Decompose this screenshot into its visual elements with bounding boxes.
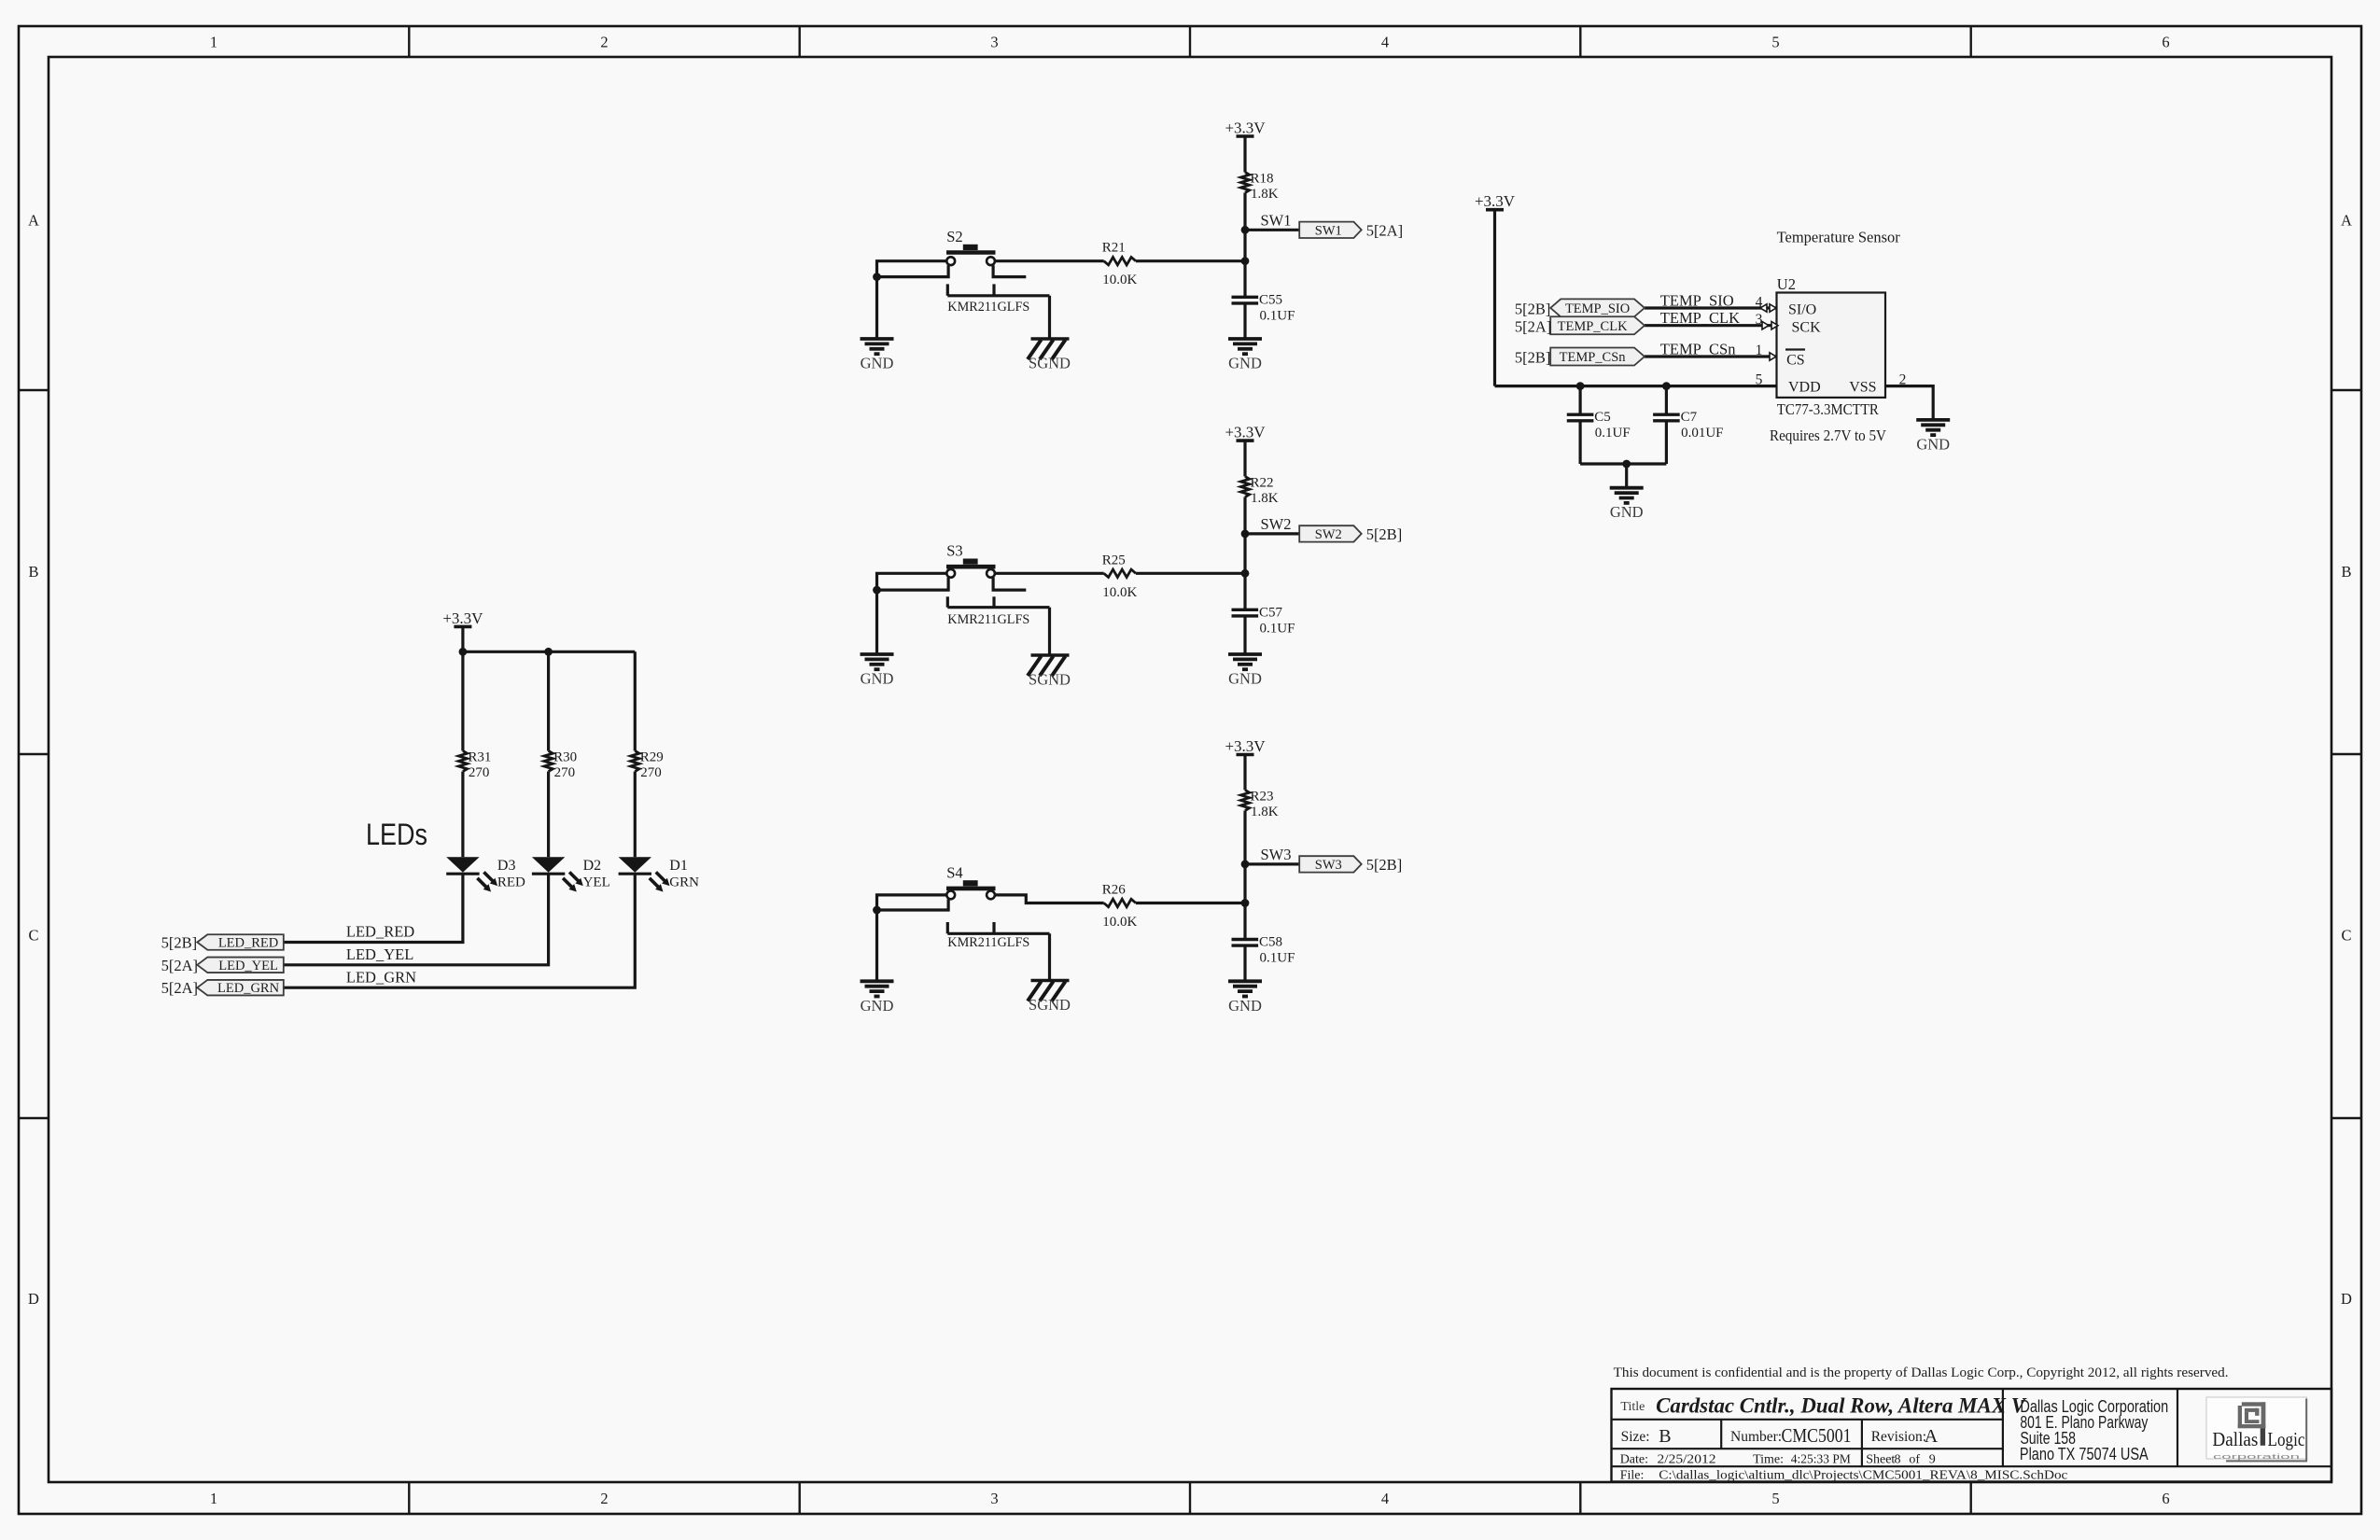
- wire cap bus to GND: [1625, 464, 1628, 488]
- svg-text:A: A: [2341, 212, 2352, 230]
- svg-text:S4: S4: [946, 863, 962, 881]
- svg-text:RED: RED: [497, 875, 525, 890]
- port SW3: [1299, 856, 1362, 873]
- port TEMP_SIO: [1550, 299, 1645, 316]
- svg-text:5[2A]: 5[2A]: [161, 957, 198, 974]
- wire switch S4 right contact step: [995, 895, 1104, 903]
- svg-text:R23: R23: [1251, 789, 1274, 804]
- wire lower contact S3: [877, 578, 949, 590]
- wire TEMP_CSn to U2 pin 1: [1645, 355, 1777, 357]
- svg-text:3: 3: [990, 1490, 998, 1507]
- power +3.3V temp sensor: [1475, 192, 1516, 210]
- IC U2 TC77-3.3MCTTR body: [1777, 293, 1886, 398]
- junction cap ground bus: [1622, 460, 1631, 469]
- wire C5 to gnd bus: [1578, 421, 1581, 464]
- svg-text:2: 2: [600, 1490, 608, 1507]
- wire C57 to GND: [1243, 616, 1246, 654]
- svg-text:of: of: [1909, 1452, 1920, 1466]
- svg-text:U2: U2: [1777, 275, 1796, 293]
- svg-text:5: 5: [1771, 1490, 1779, 1507]
- title block frame: [1612, 1389, 2332, 1482]
- wire VSS pin 2 to GND: [1885, 386, 1933, 420]
- svg-text:R18: R18: [1251, 172, 1274, 187]
- svg-text:YEL: YEL: [583, 875, 610, 890]
- wire node SW1 to capacitor C55: [1243, 230, 1246, 297]
- capacitor C5 0.1UF: [1567, 410, 1631, 441]
- svg-text:Dallas: Dallas: [2212, 1428, 2258, 1450]
- Dallas Logic logo: [2206, 1397, 2307, 1459]
- svg-text:4:25:33 PM: 4:25:33 PM: [1791, 1452, 1852, 1466]
- svg-text:VDD: VDD: [1788, 380, 1821, 396]
- svg-text:+3.3V: +3.3V: [1225, 119, 1266, 137]
- svg-text:3: 3: [990, 34, 998, 51]
- junction LED bus at R30: [544, 648, 553, 656]
- svg-text:Cardstac Cntlr., Dual Row, Alt: Cardstac Cntlr., Dual Row, Altera MAX V: [1656, 1394, 2027, 1419]
- signal ground SGND S4: [1028, 981, 1071, 1015]
- port SW1: [1299, 222, 1362, 239]
- power +3.3V LEDs: [442, 609, 483, 627]
- svg-text:R21: R21: [1102, 241, 1126, 256]
- svg-text:5[2B]: 5[2B]: [1515, 301, 1551, 318]
- svg-text:SGND: SGND: [1029, 996, 1071, 1014]
- svg-text:SW1: SW1: [1315, 224, 1342, 239]
- svg-text:5: 5: [1771, 34, 1779, 51]
- wire lower contact S2: [877, 265, 949, 276]
- junction LED bus at R31: [459, 648, 468, 656]
- wire lower contact S4: [877, 899, 949, 910]
- svg-text:B: B: [28, 563, 38, 581]
- svg-text:CS: CS: [1786, 353, 1805, 369]
- svg-text:S3: S3: [946, 542, 962, 560]
- svg-text:R31: R31: [468, 750, 491, 765]
- border row dividers: [19, 389, 49, 391]
- wire left gnd drop S4: [875, 910, 878, 981]
- junction left gnd S2: [873, 273, 881, 281]
- LED D2 YEL: [532, 857, 583, 891]
- resistor R30 270: [544, 750, 577, 781]
- junction node SW3: [1241, 861, 1250, 869]
- junction VDD at C5: [1576, 382, 1585, 390]
- svg-text:C55: C55: [1259, 292, 1282, 307]
- signal ground SGND S3: [1028, 655, 1071, 689]
- power +3.3V SW2: [1225, 424, 1266, 441]
- svg-text:S2: S2: [946, 228, 962, 245]
- svg-text:C: C: [2341, 927, 2351, 945]
- svg-text:TEMP_SIO: TEMP_SIO: [1565, 301, 1630, 316]
- wire node SW3 to capacitor C58: [1243, 864, 1246, 940]
- svg-text:Time:: Time:: [1753, 1452, 1784, 1466]
- svg-text:CMC5001: CMC5001: [1782, 1424, 1852, 1447]
- svg-text:5[2A]: 5[2A]: [1515, 317, 1551, 335]
- svg-text:5[2A]: 5[2A]: [161, 979, 198, 997]
- svg-text:4: 4: [1381, 34, 1389, 51]
- wire left gnd to S3 top contact: [877, 573, 947, 590]
- svg-text:Temperature Sensor: Temperature Sensor: [1777, 229, 1901, 246]
- resistor R25 10.0K: [1102, 553, 1138, 600]
- svg-text:0.01UF: 0.01UF: [1681, 426, 1723, 441]
- wire right contact stub S2: [993, 265, 1026, 276]
- svg-text:GND: GND: [1228, 997, 1262, 1015]
- svg-text:Sheet: Sheet: [1866, 1452, 1895, 1466]
- svg-text:0.1UF: 0.1UF: [1595, 426, 1631, 441]
- resistor R22 1.8K: [1240, 476, 1278, 507]
- svg-text:LED_GRN: LED_GRN: [217, 981, 280, 996]
- svg-text:D: D: [28, 1290, 39, 1308]
- svg-text:GRN: GRN: [669, 875, 699, 890]
- svg-text:270: 270: [554, 765, 576, 780]
- switch S2 body bracket: [946, 284, 949, 295]
- port LED_RED: [197, 934, 283, 950]
- svg-text:2: 2: [1899, 372, 1907, 388]
- resistor R29 270: [631, 750, 664, 781]
- ground GND left S2: [861, 339, 894, 372]
- svg-text:10.0K: 10.0K: [1102, 585, 1137, 600]
- svg-text:+3.3V: +3.3V: [1475, 192, 1516, 210]
- junction node SW1: [1241, 226, 1250, 234]
- svg-text:SI/O: SI/O: [1788, 302, 1816, 318]
- svg-text:6: 6: [2162, 1490, 2169, 1507]
- wire bus drop R30: [547, 651, 550, 750]
- junction switch wire at node: [1241, 899, 1250, 907]
- junction switch wire at node: [1241, 257, 1250, 265]
- port SW2: [1299, 525, 1362, 542]
- svg-text:TC77-3.3MCTTR: TC77-3.3MCTTR: [1777, 400, 1879, 418]
- svg-text:1: 1: [1756, 343, 1763, 358]
- svg-text:GND: GND: [1228, 670, 1262, 688]
- capacitor C7 0.01UF: [1653, 410, 1723, 441]
- resistor R18 1.8K: [1240, 172, 1278, 203]
- svg-text:Revision:: Revision:: [1871, 1429, 1926, 1445]
- svg-text:B: B: [2341, 563, 2351, 581]
- svg-text:C:\dallas_logic\altium_dlc\Pro: C:\dallas_logic\altium_dlc\Projects\CMC5…: [1659, 1468, 2067, 1482]
- wire R23 to node SW3: [1243, 811, 1246, 864]
- wire S3 body to SGND: [1048, 608, 1051, 655]
- svg-text:C57: C57: [1259, 605, 1283, 620]
- svg-text:R30: R30: [553, 750, 577, 765]
- wire D2 anode: [547, 772, 550, 858]
- wire +3.3V to LED bus: [461, 626, 464, 651]
- svg-text:5[2B]: 5[2B]: [1366, 856, 1403, 874]
- svg-text:5[2B]: 5[2B]: [1515, 349, 1551, 367]
- svg-text:1: 1: [210, 1490, 217, 1507]
- ground GND under C55: [1228, 339, 1262, 372]
- svg-text:R22: R22: [1251, 476, 1274, 491]
- svg-text:GND: GND: [861, 355, 894, 372]
- wire resistor R18 to node: [1136, 259, 1245, 262]
- ground GND left S4: [861, 981, 894, 1015]
- junction left gnd S4: [873, 906, 881, 915]
- capacitor C58 0.1UF: [1232, 935, 1295, 966]
- junction left gnd S3: [873, 586, 881, 595]
- switch S3 body bracket: [946, 596, 949, 607]
- wire bus drop R29: [634, 651, 637, 750]
- wire node to port SW3: [1245, 862, 1299, 865]
- svg-text:B: B: [1659, 1426, 1671, 1447]
- svg-text:KMR211GLFS: KMR211GLFS: [947, 300, 1029, 315]
- svg-text:5: 5: [1756, 372, 1763, 388]
- junction VDD at C7: [1662, 382, 1671, 390]
- wire node to port SW2: [1245, 532, 1299, 535]
- svg-text:10.0K: 10.0K: [1102, 915, 1137, 930]
- port LED_YEL: [197, 958, 283, 973]
- svg-text:SW1: SW1: [1261, 211, 1292, 229]
- resistor R26 10.0K: [1102, 883, 1138, 931]
- resistor R21 10.0K: [1102, 241, 1138, 288]
- svg-text:Size:: Size:: [1621, 1429, 1650, 1445]
- svg-text:GND: GND: [1610, 503, 1644, 521]
- wire right contact stub S3: [993, 578, 1026, 590]
- wire node to port SW1: [1245, 229, 1299, 231]
- svg-text:GND: GND: [1916, 435, 1950, 453]
- wire D1 anode: [634, 772, 637, 858]
- svg-text:corporation: corporation: [2213, 1452, 2300, 1461]
- svg-text:2/25/2012: 2/25/2012: [1658, 1452, 1716, 1466]
- svg-text:R25: R25: [1102, 553, 1126, 567]
- svg-text:270: 270: [469, 765, 490, 780]
- svg-text:TEMP_CLK: TEMP_CLK: [1558, 319, 1628, 334]
- svg-text:Title: Title: [1620, 1400, 1645, 1414]
- wire D3 cathode to LED_RED port: [284, 874, 463, 942]
- svg-text:8: 8: [1895, 1452, 1901, 1466]
- wire resistor R22 to node: [1136, 572, 1245, 575]
- wire +3.3V to R18: [1243, 136, 1246, 173]
- svg-text:SW3: SW3: [1261, 846, 1292, 863]
- svg-text:1.8K: 1.8K: [1251, 805, 1279, 819]
- LED D3 RED: [446, 857, 497, 891]
- junction node SW2: [1241, 530, 1250, 539]
- svg-text:TEMP_SIO: TEMP_SIO: [1660, 292, 1734, 310]
- ground GND left S3: [861, 654, 894, 688]
- svg-text:Requires 2.7V to 5V: Requires 2.7V to 5V: [1770, 427, 1886, 444]
- wire C58 to GND: [1243, 945, 1246, 981]
- wire S2 body to SGND: [1048, 296, 1051, 339]
- svg-text:GND: GND: [861, 670, 894, 688]
- cap ground bus wire: [1580, 462, 1666, 465]
- LED D1 GRN: [619, 857, 670, 891]
- wire VDD rail: [1495, 385, 1777, 387]
- svg-text:0.1UF: 0.1UF: [1260, 621, 1295, 636]
- svg-text:C: C: [28, 927, 38, 945]
- svg-text:1.8K: 1.8K: [1251, 491, 1279, 506]
- svg-text:SW2: SW2: [1261, 515, 1292, 533]
- svg-text:A: A: [28, 212, 39, 230]
- svg-text:C7: C7: [1681, 410, 1698, 425]
- wire +3.3V to R23: [1243, 755, 1246, 791]
- svg-text:File:: File:: [1620, 1468, 1645, 1482]
- svg-text:SGND: SGND: [1029, 671, 1071, 689]
- svg-text:D1: D1: [669, 858, 688, 874]
- signal ground SGND S2: [1028, 339, 1071, 372]
- svg-text:VSS: VSS: [1849, 380, 1876, 396]
- pin 3 arrows: [1762, 322, 1778, 329]
- svg-text:Number:: Number:: [1730, 1429, 1782, 1445]
- svg-text:R26: R26: [1102, 883, 1127, 898]
- svg-text:D: D: [2341, 1290, 2352, 1308]
- resistor R23 1.8K: [1240, 789, 1278, 819]
- LED supply bus wire: [463, 651, 635, 653]
- capacitor C57 0.1UF: [1232, 605, 1295, 636]
- port LED_GRN: [197, 980, 283, 996]
- svg-text:TEMP_CSn: TEMP_CSn: [1660, 340, 1736, 357]
- port TEMP_CSn: [1550, 348, 1645, 366]
- svg-text:LED_RED: LED_RED: [346, 923, 414, 941]
- ground GND under caps: [1610, 488, 1644, 522]
- svg-text:SW2: SW2: [1315, 527, 1342, 542]
- svg-text:+3.3V: +3.3V: [1225, 737, 1266, 755]
- wire left gnd drop S2: [875, 277, 878, 339]
- wire node SW2 to capacitor C57: [1243, 534, 1246, 609]
- wire C55 to GND: [1243, 303, 1246, 339]
- wire +3.3V down to VDD rail: [1493, 210, 1496, 386]
- svg-text:LEDs: LEDs: [366, 818, 427, 851]
- svg-text:SCK: SCK: [1792, 320, 1822, 336]
- power +3.3V SW1: [1225, 119, 1266, 137]
- svg-text:10.0K: 10.0K: [1102, 273, 1137, 287]
- svg-text:+3.3V: +3.3V: [442, 609, 483, 627]
- wire left gnd drop S3: [875, 590, 878, 654]
- svg-text:LED_RED: LED_RED: [218, 936, 278, 951]
- wire D3 anode: [461, 772, 464, 858]
- wire TEMP_SIO to U2 pin 4: [1645, 306, 1777, 309]
- svg-text:D3: D3: [497, 858, 516, 874]
- svg-text:Plano TX 75074 USA: Plano TX 75074 USA: [2020, 1445, 2149, 1463]
- wire R18 to node SW1: [1243, 193, 1246, 231]
- ground GND under C57: [1228, 654, 1262, 688]
- svg-text:1: 1: [210, 34, 217, 51]
- svg-text:LED_YEL: LED_YEL: [218, 959, 278, 973]
- wire D1 cathode to LED_GRN port: [284, 874, 636, 987]
- wire left gnd to S4 top contact: [877, 895, 947, 910]
- power +3.3V SW3: [1225, 737, 1266, 755]
- wire left gnd to S2 top contact: [877, 261, 947, 277]
- port TEMP_CLK: [1550, 316, 1645, 334]
- svg-text:Date:: Date:: [1620, 1452, 1648, 1466]
- svg-text:5[2B]: 5[2B]: [1366, 525, 1403, 543]
- resistor R31 270: [458, 750, 491, 781]
- svg-text:SGND: SGND: [1029, 355, 1071, 372]
- svg-text:TEMP_CLK: TEMP_CLK: [1660, 309, 1740, 327]
- svg-text:LED_YEL: LED_YEL: [346, 945, 413, 963]
- wire R22 to node SW2: [1243, 497, 1246, 534]
- svg-text:C5: C5: [1594, 410, 1611, 425]
- wire D2 cathode to LED_YEL port: [284, 874, 549, 965]
- svg-text:6: 6: [2162, 34, 2169, 51]
- svg-text:D2: D2: [583, 858, 602, 874]
- pin 4 arrows bidirectional: [1760, 304, 1776, 312]
- svg-text:0.1UF: 0.1UF: [1260, 951, 1295, 966]
- junction switch wire at node: [1241, 569, 1250, 578]
- svg-text:Logic: Logic: [2268, 1428, 2305, 1450]
- ground GND at VSS: [1916, 420, 1950, 454]
- pin 1 arrow: [1770, 353, 1776, 360]
- svg-text:TEMP_CSn: TEMP_CSn: [1560, 350, 1627, 365]
- wire resistor R23 to node: [1136, 902, 1245, 904]
- svg-text:1.8K: 1.8K: [1251, 187, 1279, 202]
- svg-text:GND: GND: [861, 997, 894, 1015]
- wire S4 body to SGND: [1048, 933, 1051, 980]
- svg-text:LED_GRN: LED_GRN: [346, 968, 416, 986]
- capacitor C55 0.1UF: [1232, 292, 1295, 323]
- svg-text:C58: C58: [1259, 935, 1282, 950]
- svg-text:0.1UF: 0.1UF: [1260, 308, 1295, 323]
- pin label CS with bar: [1785, 350, 1805, 369]
- wire switch S3 to resistor R22: [995, 572, 1104, 575]
- svg-text:270: 270: [640, 765, 662, 780]
- wire bus drop R31: [461, 651, 464, 750]
- svg-text:KMR211GLFS: KMR211GLFS: [947, 935, 1029, 950]
- wire VDD to C7: [1665, 386, 1668, 415]
- switch S4 body bracket: [946, 922, 949, 933]
- svg-text:This document is confidential: This document is confidential and is the…: [1614, 1365, 2229, 1380]
- svg-text:A: A: [1925, 1426, 1939, 1447]
- wire C7 to gnd bus: [1665, 421, 1668, 464]
- svg-text:R29: R29: [640, 750, 664, 765]
- ground GND under C58: [1228, 981, 1262, 1015]
- svg-text:2: 2: [600, 34, 608, 51]
- svg-text:GND: GND: [1228, 355, 1262, 372]
- svg-text:SW3: SW3: [1315, 858, 1342, 873]
- wire VDD to C5: [1578, 386, 1581, 415]
- border column dividers: [408, 26, 410, 57]
- wire TEMP_CLK to U2 pin 3: [1645, 324, 1777, 327]
- svg-text:4: 4: [1381, 1490, 1389, 1507]
- svg-text:+3.3V: +3.3V: [1225, 424, 1266, 441]
- svg-text:5[2B]: 5[2B]: [161, 934, 198, 952]
- svg-text:9: 9: [1929, 1452, 1936, 1466]
- svg-text:KMR211GLFS: KMR211GLFS: [947, 612, 1029, 627]
- wire switch S2 to resistor R18: [995, 259, 1104, 262]
- wire +3.3V to R22: [1243, 441, 1246, 476]
- svg-text:5[2A]: 5[2A]: [1366, 222, 1403, 240]
